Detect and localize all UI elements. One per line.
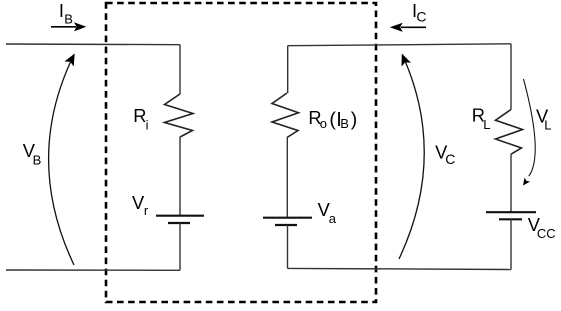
resistor Ri xyxy=(165,94,194,137)
wire RL to Vcc xyxy=(510,154,512,212)
current arrow IC xyxy=(390,23,426,32)
svg-text:a: a xyxy=(329,211,337,226)
voltage arrow VC xyxy=(399,54,424,260)
wire Vr to bottom xyxy=(179,223,181,270)
svg-text:B: B xyxy=(64,12,73,27)
wire middle bottom xyxy=(288,268,512,269)
wire Va to bottom xyxy=(287,225,289,268)
svg-text:L: L xyxy=(544,117,551,132)
wire left bottom xyxy=(6,269,180,271)
svg-text:CC: CC xyxy=(537,226,556,241)
wire Ro to Va xyxy=(286,138,288,218)
battery Vr long plate xyxy=(156,215,204,217)
svg-text:L: L xyxy=(483,117,490,132)
wire middle vertical upper xyxy=(287,46,289,93)
resistor RL xyxy=(496,110,523,155)
battery Vcc long plate xyxy=(486,211,536,213)
wire Vcc to bottom xyxy=(510,219,512,269)
battery Vcc short plate xyxy=(499,218,522,220)
svg-text:C: C xyxy=(445,151,455,167)
wire right vertical upper xyxy=(510,44,512,110)
wire left top xyxy=(6,43,180,46)
resistor Ro xyxy=(272,93,299,138)
svg-text:): ) xyxy=(351,109,358,131)
svg-text:I: I xyxy=(59,0,64,21)
svg-text:R: R xyxy=(133,105,146,126)
wire left vertical upper xyxy=(179,45,181,94)
svg-text:B: B xyxy=(340,116,349,131)
svg-text:i: i xyxy=(146,117,149,132)
voltage arrow VB xyxy=(49,54,75,266)
current arrow IB xyxy=(51,22,86,31)
voltage arrow VL xyxy=(523,79,535,186)
dashed box (transistor model boundary) xyxy=(106,3,376,302)
battery Va long plate xyxy=(263,217,312,219)
svg-text:r: r xyxy=(144,203,149,218)
svg-text:C: C xyxy=(416,9,426,25)
wire Ri to Vr xyxy=(179,137,181,216)
wire middle top xyxy=(288,44,511,46)
battery Va short plate xyxy=(275,224,297,226)
battery Vr short plate xyxy=(168,222,190,224)
svg-text:o: o xyxy=(320,116,327,131)
svg-text:B: B xyxy=(33,152,42,167)
